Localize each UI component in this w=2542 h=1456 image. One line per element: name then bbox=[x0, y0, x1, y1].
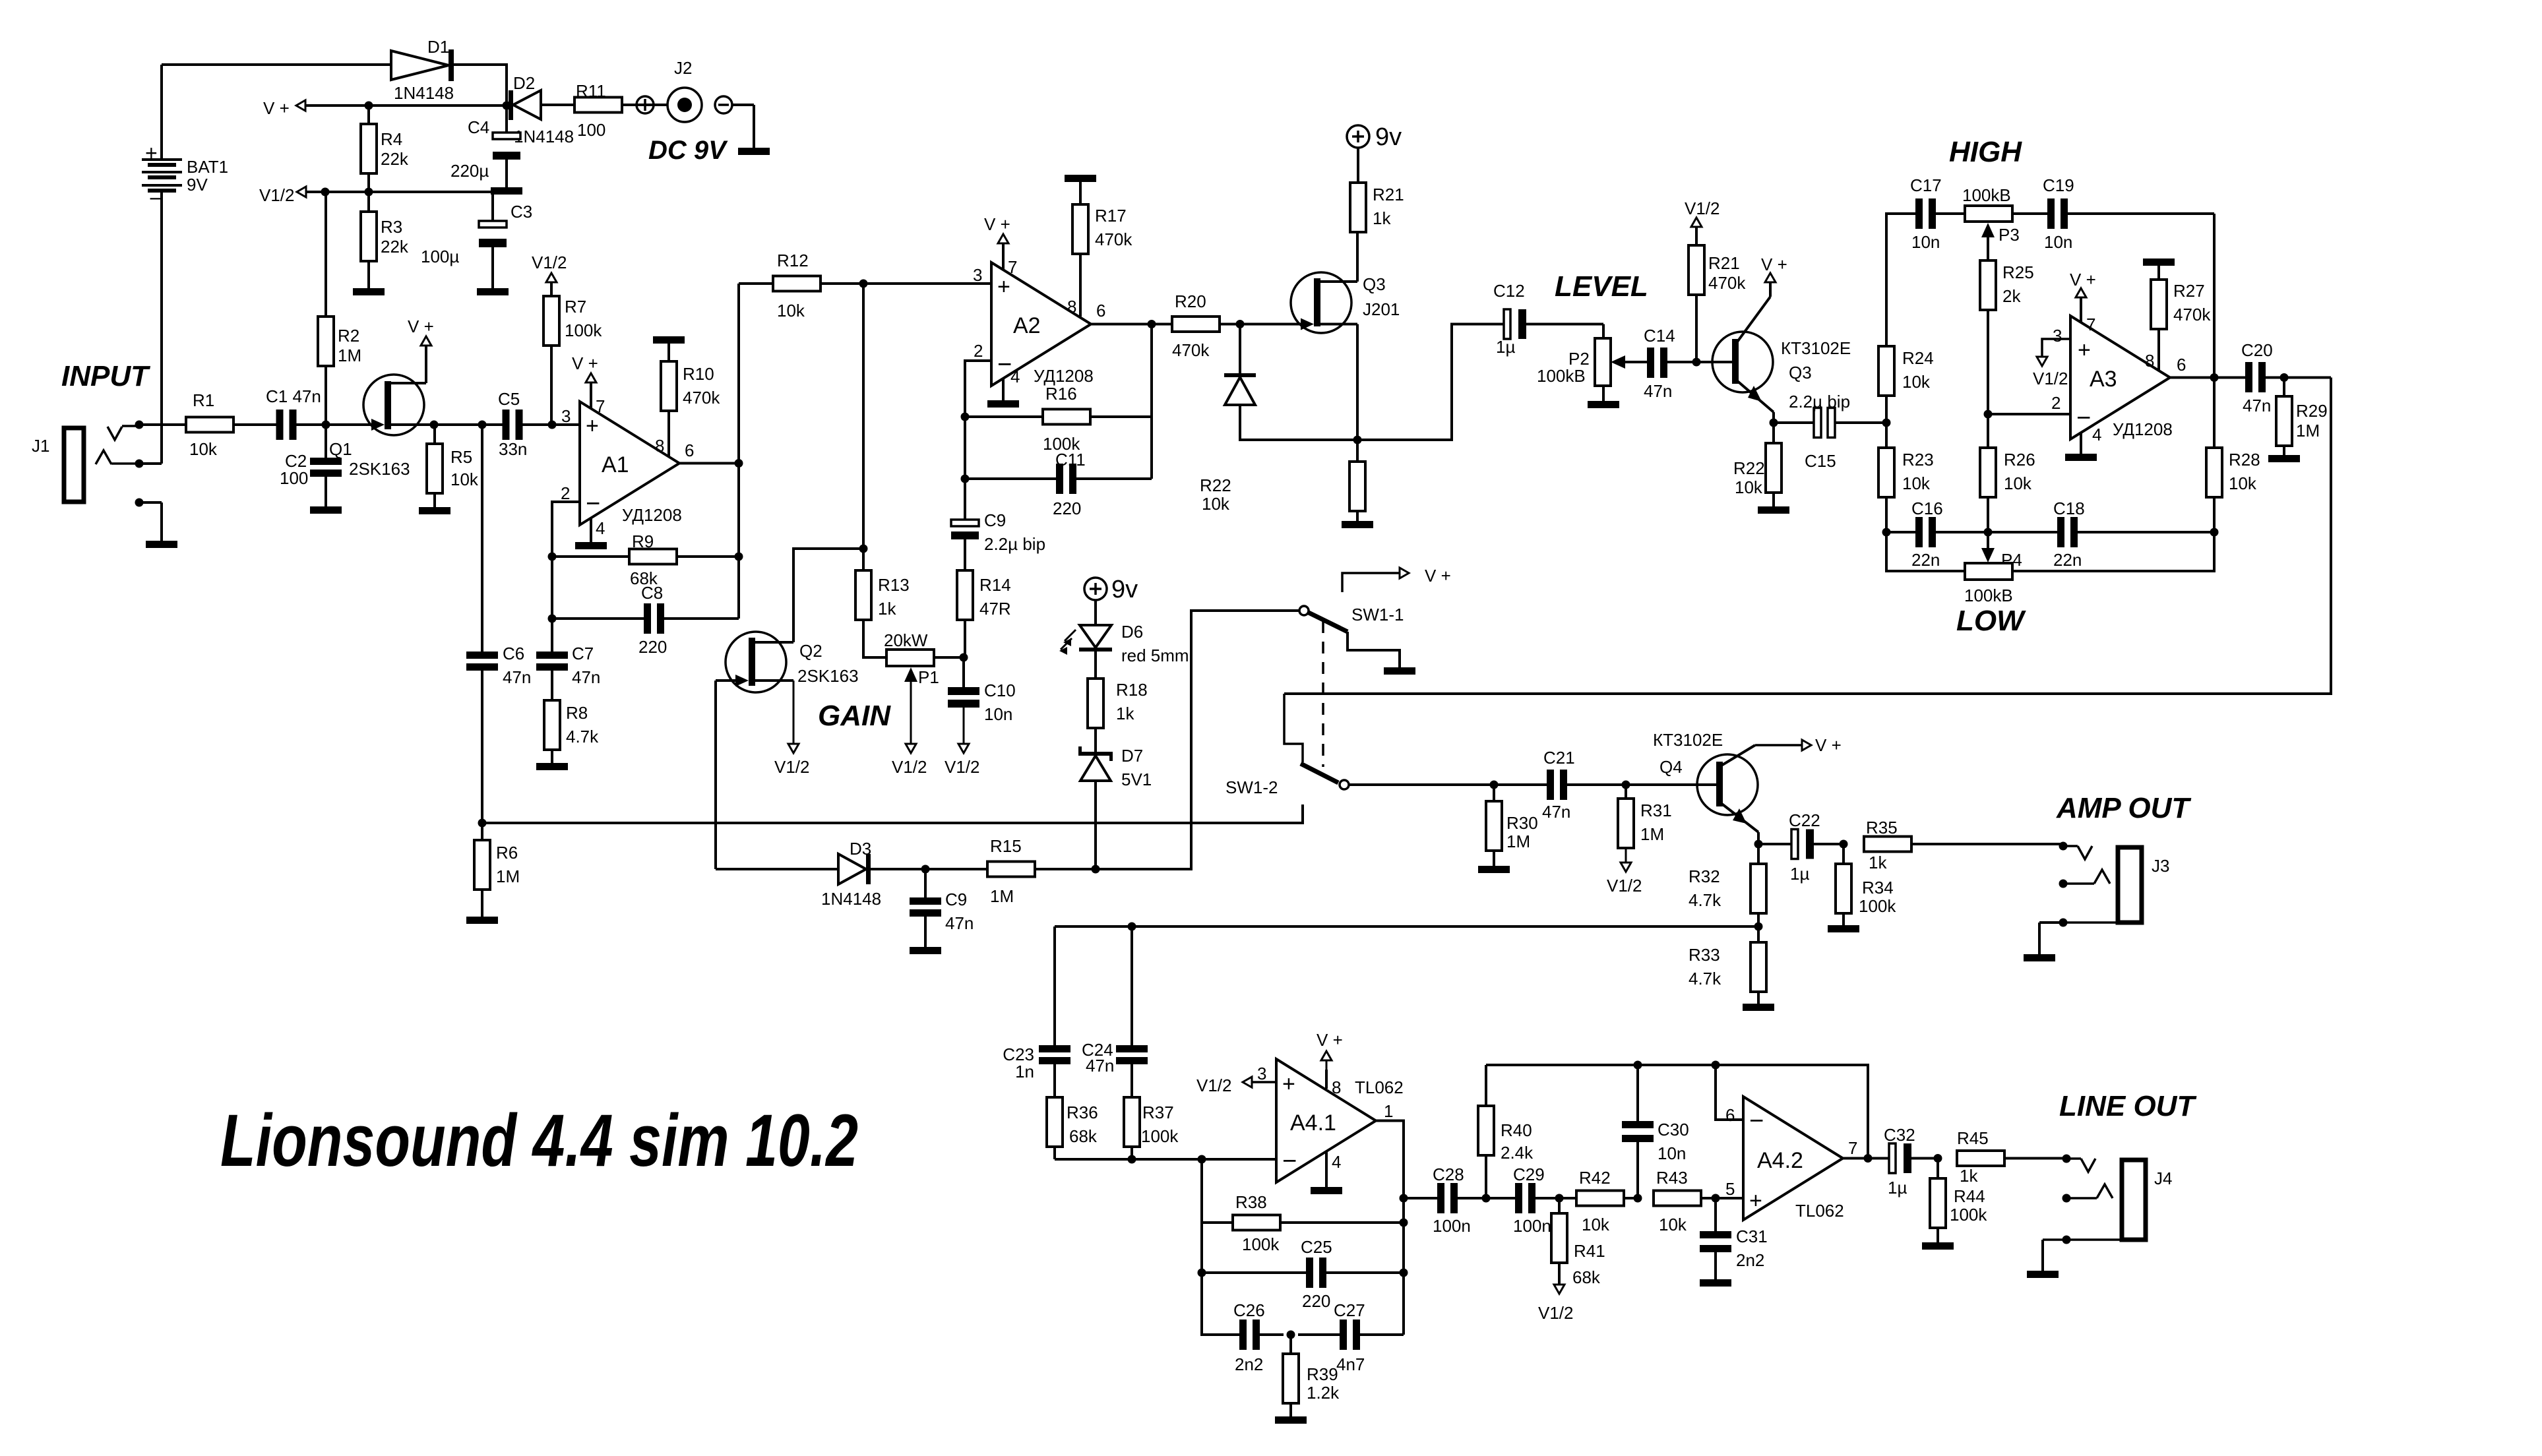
svg-text:220µ: 220µ bbox=[450, 161, 489, 181]
svg-text:68k: 68k bbox=[1069, 1126, 1098, 1146]
junction C20 R29 bbox=[2280, 373, 2289, 382]
svg-text:А3: А3 bbox=[2090, 367, 2117, 392]
resistor R40 bbox=[1478, 1065, 1494, 1198]
pin 5 A4.2 bbox=[1725, 1179, 1735, 1199]
junction R16 left bbox=[961, 413, 970, 421]
svg-text:1M: 1M bbox=[1506, 832, 1530, 851]
svg-text:R32: R32 bbox=[1689, 866, 1720, 886]
svg-text:1k: 1k bbox=[1373, 208, 1391, 228]
svg-text:C7: C7 bbox=[572, 644, 594, 663]
svg-text:R43: R43 bbox=[1656, 1168, 1688, 1188]
svg-text:47n: 47n bbox=[945, 913, 974, 933]
svg-text:100k: 100k bbox=[565, 320, 602, 340]
ground J3 bbox=[2024, 923, 2055, 961]
svg-text:2n2: 2n2 bbox=[1235, 1354, 1263, 1374]
label R40 bbox=[1501, 1120, 1534, 1163]
svg-text:А1: А1 bbox=[602, 452, 629, 477]
svg-text:9V: 9V bbox=[187, 175, 208, 195]
svg-text:V1/2: V1/2 bbox=[1538, 1303, 1574, 1323]
junction C24 top bbox=[1128, 923, 1136, 931]
svg-text:УД1208: УД1208 bbox=[1034, 366, 1094, 386]
pin 6 A1 bbox=[685, 440, 694, 460]
jack J1 bbox=[32, 426, 162, 502]
svg-text:R41: R41 bbox=[1574, 1241, 1605, 1261]
svg-text:+: + bbox=[1282, 1072, 1295, 1097]
transistor Q3 KT3102E bbox=[1696, 255, 1851, 423]
label R16 bbox=[1043, 384, 1080, 454]
svg-text:+: + bbox=[997, 274, 1010, 299]
svg-text:C30: C30 bbox=[1658, 1120, 1689, 1139]
svg-text:C17: C17 bbox=[1910, 175, 1942, 195]
svg-text:47n: 47n bbox=[503, 667, 531, 687]
svg-text:C26: C26 bbox=[1233, 1300, 1265, 1320]
junction C6 column bbox=[478, 421, 487, 429]
pin 6 A4.2 bbox=[1725, 1105, 1735, 1125]
label R26 bbox=[2004, 450, 2035, 493]
junction V1/2 R2 bbox=[321, 188, 330, 197]
label R28 bbox=[2229, 450, 2260, 493]
svg-text:4n7: 4n7 bbox=[1336, 1354, 1365, 1374]
svg-text:C3: C3 bbox=[511, 202, 532, 222]
capacitor C30 bbox=[1622, 1065, 1689, 1198]
svg-text:1n: 1n bbox=[1015, 1062, 1034, 1081]
pin 6 A2 bbox=[1096, 301, 1105, 320]
capacitor C5 bbox=[503, 409, 580, 440]
label R9 bbox=[630, 531, 658, 588]
transistor Q2 bbox=[716, 549, 863, 777]
svg-text:V1/2: V1/2 bbox=[1607, 876, 1642, 895]
svg-text:SW1-1: SW1-1 bbox=[1351, 605, 1404, 624]
junction R40 bbox=[1482, 1194, 1491, 1203]
wire long mid bbox=[482, 804, 1303, 823]
svg-text:УД1208: УД1208 bbox=[2113, 419, 2173, 439]
label R6 bbox=[496, 843, 520, 886]
svg-text:470k: 470k bbox=[1095, 229, 1132, 249]
junction V+ C4 bbox=[503, 102, 511, 110]
potentiometer P1 bbox=[863, 620, 964, 777]
op-amp A4.1 bbox=[1276, 1059, 1376, 1182]
svg-text:33n: 33n bbox=[499, 439, 527, 459]
resistor R37 bbox=[1124, 1097, 1140, 1159]
wire Q1 to C5 bbox=[434, 423, 503, 426]
resistor R10 bbox=[653, 336, 720, 456]
capacitor C21 bbox=[1494, 748, 1626, 822]
resistor R22b bbox=[1766, 423, 1782, 506]
svg-text:R24: R24 bbox=[1902, 348, 1934, 368]
svg-text:V1/2: V1/2 bbox=[259, 185, 295, 205]
junction J1 tip bbox=[135, 421, 144, 429]
svg-text:R4: R4 bbox=[381, 129, 402, 149]
label R39 bbox=[1307, 1364, 1340, 1403]
svg-text:Q2: Q2 bbox=[799, 641, 822, 661]
pin 7 A3 bbox=[2070, 270, 2096, 334]
junction fb C30 bbox=[1634, 1061, 1642, 1070]
svg-text:V +: V + bbox=[572, 353, 598, 373]
svg-text:−: − bbox=[586, 490, 600, 518]
svg-text:R25: R25 bbox=[2002, 262, 2034, 282]
svg-text:8: 8 bbox=[1067, 297, 1076, 317]
svg-text:J2: J2 bbox=[674, 58, 692, 78]
resistor R21 470k bbox=[1685, 198, 1746, 362]
svg-text:D7: D7 bbox=[1121, 746, 1143, 766]
resistor R6 bbox=[474, 823, 490, 917]
junction Q2 drain bbox=[859, 545, 868, 553]
jack J3 bbox=[2063, 846, 2169, 923]
junction C25 left bbox=[1198, 1269, 1206, 1277]
svg-text:100k: 100k bbox=[1141, 1126, 1179, 1146]
junction R37 bottom bbox=[1128, 1155, 1136, 1164]
junction fb pin6 bbox=[1712, 1061, 1720, 1070]
svg-text:C19: C19 bbox=[2043, 175, 2074, 195]
svg-text:3: 3 bbox=[2053, 326, 2062, 346]
label HIGH bbox=[1949, 136, 2022, 168]
label R24 bbox=[1902, 348, 1934, 392]
label DC 9V bbox=[648, 136, 728, 165]
svg-text:100k: 100k bbox=[1859, 896, 1896, 916]
wire A4.2 out bbox=[1843, 1157, 1889, 1160]
label D6 bbox=[1121, 622, 1189, 665]
svg-text:V +: V + bbox=[1815, 735, 1842, 755]
svg-text:C25: C25 bbox=[1301, 1237, 1332, 1257]
ground R29 bbox=[2268, 455, 2300, 462]
svg-text:R22: R22 bbox=[1200, 475, 1231, 495]
svg-text:4.7k: 4.7k bbox=[1689, 969, 1721, 988]
transistor Q1 bbox=[326, 317, 434, 479]
svg-text:100n: 100n bbox=[1513, 1216, 1551, 1236]
svg-text:−: − bbox=[1282, 1147, 1297, 1175]
svg-text:−: − bbox=[997, 351, 1012, 379]
svg-text:470k: 470k bbox=[1708, 273, 1746, 293]
svg-text:R37: R37 bbox=[1142, 1103, 1174, 1122]
wire A3 out bbox=[2170, 377, 2245, 379]
resistor R21 1k bbox=[1347, 123, 1404, 232]
svg-text:5V1: 5V1 bbox=[1121, 770, 1152, 789]
svg-text:SW1-2: SW1-2 bbox=[1225, 777, 1278, 797]
resistor R23 bbox=[1878, 423, 1894, 532]
svg-text:+: + bbox=[586, 413, 599, 439]
potentiometer P3 bbox=[1962, 185, 2047, 260]
junction R41 bbox=[1555, 1194, 1564, 1203]
label LOW bbox=[1956, 605, 2026, 637]
label R8 bbox=[566, 703, 599, 746]
svg-text:D6: D6 bbox=[1121, 622, 1143, 642]
resistor R25 bbox=[1980, 260, 1996, 414]
svg-text:1k: 1k bbox=[1116, 704, 1134, 723]
junction C8 left bbox=[548, 615, 557, 623]
svg-text:100: 100 bbox=[280, 468, 308, 488]
svg-text:470k: 470k bbox=[2173, 305, 2211, 324]
wire C24 col bbox=[1131, 926, 1133, 1045]
svg-text:C22: C22 bbox=[1789, 810, 1820, 830]
resistor R31 bbox=[1618, 785, 1634, 849]
svg-text:2k: 2k bbox=[2002, 286, 2021, 306]
junction pin5 bbox=[1712, 1194, 1720, 1203]
svg-text:А2: А2 bbox=[1013, 313, 1041, 338]
pin 7 A1 bbox=[572, 353, 605, 416]
svg-text:7: 7 bbox=[1008, 257, 1017, 277]
svg-text:V +: V + bbox=[1761, 255, 1787, 274]
svg-text:C5: C5 bbox=[498, 389, 520, 409]
junction J1 ring bbox=[135, 460, 144, 468]
svg-text:C31: C31 bbox=[1736, 1227, 1768, 1246]
label R5 bbox=[450, 447, 479, 489]
svg-text:2.2µ bip: 2.2µ bip bbox=[984, 534, 1045, 554]
junction R15 D7 bbox=[1092, 865, 1100, 874]
junction R6 bbox=[478, 819, 487, 828]
svg-text:КТ3102Е: КТ3102Е bbox=[1781, 338, 1851, 358]
label R45 bbox=[1957, 1128, 1989, 1186]
ground R6 bbox=[466, 917, 498, 924]
label R32 bbox=[1689, 866, 1721, 910]
label INPUT bbox=[61, 360, 150, 392]
pin 4 A2 bbox=[987, 367, 1020, 408]
svg-text:V +: V + bbox=[1317, 1030, 1343, 1050]
svg-text:R8: R8 bbox=[566, 703, 588, 723]
capacitor C12 bbox=[1504, 309, 1603, 339]
ground R39 bbox=[1275, 1416, 1307, 1424]
junction C1 Q1 gate bbox=[322, 421, 330, 429]
svg-text:4: 4 bbox=[596, 518, 605, 538]
junction J3 sleeve bbox=[2059, 919, 2068, 927]
svg-text:C27: C27 bbox=[1334, 1300, 1365, 1320]
svg-text:R44: R44 bbox=[1954, 1186, 1985, 1206]
svg-text:22n: 22n bbox=[2053, 550, 2082, 570]
wire battery top to D1 bbox=[162, 63, 391, 66]
svg-text:R13: R13 bbox=[878, 575, 910, 595]
power flag V1/2 rail bbox=[259, 185, 493, 205]
capacitor C14 bbox=[1644, 326, 1696, 401]
pin 3 A2 bbox=[973, 265, 982, 285]
pin 6 A3 bbox=[2177, 355, 2186, 375]
svg-text:3: 3 bbox=[1257, 1064, 1266, 1083]
label R35 bbox=[1866, 818, 1898, 872]
pin 7 A4.2 bbox=[1848, 1138, 1857, 1158]
diode D4 bbox=[1224, 324, 1256, 440]
svg-text:100µ: 100µ bbox=[421, 247, 459, 266]
svg-text:R36: R36 bbox=[1067, 1103, 1098, 1122]
ground J1 bbox=[146, 502, 177, 548]
svg-text:2SK163: 2SK163 bbox=[797, 666, 859, 686]
svg-text:10n: 10n bbox=[2044, 232, 2072, 252]
svg-text:J4: J4 bbox=[2154, 1168, 2172, 1188]
svg-text:9v: 9v bbox=[1375, 123, 1402, 151]
label C12 bbox=[1493, 281, 1525, 357]
capacitor C31 bbox=[1700, 1198, 1768, 1287]
svg-text:4.7k: 4.7k bbox=[1689, 890, 1721, 910]
junction Q1 source R5 bbox=[430, 421, 439, 429]
svg-text:КТ3102Е: КТ3102Е bbox=[1653, 730, 1723, 750]
svg-text:R7: R7 bbox=[565, 297, 586, 317]
wire R38 col bbox=[1200, 1159, 1203, 1273]
svg-text:R21: R21 bbox=[1708, 253, 1740, 273]
resistor R2 bbox=[318, 192, 334, 425]
svg-text:7: 7 bbox=[1848, 1138, 1857, 1158]
svg-text:D2: D2 bbox=[513, 73, 535, 93]
svg-text:R33: R33 bbox=[1689, 945, 1720, 965]
pin 4 A1 bbox=[575, 518, 607, 549]
svg-text:R45: R45 bbox=[1957, 1128, 1989, 1148]
svg-text:100kB: 100kB bbox=[1537, 366, 1586, 386]
switch gang dashed bbox=[1322, 621, 1324, 767]
wire R24 col up bbox=[1886, 214, 1915, 423]
svg-text:R34: R34 bbox=[1862, 878, 1894, 897]
pin 4 A3 bbox=[2065, 425, 2101, 461]
wire tone out bbox=[1284, 378, 2331, 694]
junction A2 out bbox=[1148, 320, 1156, 328]
power flag V+ rail bbox=[263, 98, 507, 118]
svg-text:LOW: LOW bbox=[1956, 605, 2026, 637]
svg-text:4.7k: 4.7k bbox=[566, 727, 599, 746]
svg-text:1k: 1k bbox=[878, 599, 896, 619]
svg-text:C1 47n: C1 47n bbox=[266, 386, 321, 406]
svg-text:C21: C21 bbox=[1543, 748, 1575, 768]
svg-text:C6: C6 bbox=[503, 644, 524, 663]
svg-text:47n: 47n bbox=[1086, 1056, 1114, 1076]
wire R33 row bbox=[1055, 925, 1758, 928]
capacitor C9 bip bbox=[951, 479, 1045, 570]
pin 2 A2 bbox=[974, 341, 983, 361]
power flag 9v LED bbox=[1084, 576, 1138, 625]
junction J4 sleeve bbox=[2062, 1236, 2071, 1244]
svg-text:P1: P1 bbox=[918, 667, 939, 687]
resistor R8 bbox=[544, 700, 560, 763]
svg-text:−: − bbox=[1749, 1107, 1764, 1135]
svg-text:Q4: Q4 bbox=[1659, 757, 1683, 777]
capacitor C29 bbox=[1486, 1165, 1559, 1236]
resistor R9 bbox=[552, 549, 739, 564]
ground R22b bbox=[1758, 506, 1789, 514]
svg-text:R3: R3 bbox=[381, 217, 402, 237]
jack J4 bbox=[2043, 1159, 2172, 1240]
svg-text:+: + bbox=[1749, 1188, 1762, 1213]
svg-text:2: 2 bbox=[974, 341, 983, 361]
label R2 bbox=[338, 326, 361, 365]
svg-text:22k: 22k bbox=[381, 237, 409, 257]
ground R30 bbox=[1478, 866, 1510, 873]
svg-text:1N4148: 1N4148 bbox=[821, 889, 881, 909]
svg-text:C11: C11 bbox=[1055, 450, 1086, 470]
svg-text:6: 6 bbox=[1725, 1105, 1735, 1125]
resistor R41 bbox=[1551, 1198, 1567, 1285]
resistor R26 bbox=[1980, 414, 1996, 532]
potentiometer P4 bbox=[1886, 532, 2214, 605]
wire A1 out bbox=[679, 462, 739, 465]
svg-text:BAT1: BAT1 bbox=[187, 157, 228, 177]
junction Q3b emitter bbox=[1770, 419, 1778, 427]
label Lionsound bbox=[220, 1099, 858, 1182]
svg-text:10k: 10k bbox=[1902, 473, 1931, 493]
svg-text:Lionsound 4.4 sim 10.2: Lionsound 4.4 sim 10.2 bbox=[220, 1099, 858, 1182]
label D7 bbox=[1121, 746, 1152, 789]
resistor R34 bbox=[1836, 844, 1851, 925]
svg-text:8: 8 bbox=[1332, 1077, 1341, 1097]
svg-text:R23: R23 bbox=[1902, 450, 1934, 470]
wire Q3 source row bbox=[1240, 324, 1504, 440]
svg-text:2: 2 bbox=[2051, 393, 2061, 413]
svg-text:Q1: Q1 bbox=[329, 439, 352, 459]
svg-text:4: 4 bbox=[2092, 425, 2101, 444]
pin 2 A1 bbox=[561, 483, 570, 503]
label R43 bbox=[1656, 1168, 1688, 1234]
resistor R22a bbox=[1349, 440, 1365, 521]
label R14 bbox=[979, 575, 1011, 619]
svg-text:2.2µ bip: 2.2µ bip bbox=[1789, 392, 1850, 411]
svg-text:C9: C9 bbox=[984, 510, 1006, 530]
svg-text:10k: 10k bbox=[2229, 473, 2257, 493]
svg-text:100kB: 100kB bbox=[1964, 586, 2013, 605]
svg-text:R11: R11 bbox=[576, 81, 606, 101]
svg-text:R2: R2 bbox=[338, 326, 359, 346]
svg-text:10n: 10n bbox=[984, 704, 1012, 724]
diode D1 bbox=[391, 37, 454, 103]
svg-text:R5: R5 bbox=[450, 447, 472, 467]
resistor R16 bbox=[965, 409, 1152, 425]
svg-text:9v: 9v bbox=[1111, 576, 1138, 603]
capacitor C26 bbox=[1233, 1300, 1284, 1374]
svg-text:10k: 10k bbox=[189, 439, 218, 459]
resistor R17 bbox=[1065, 175, 1132, 317]
svg-text:R9: R9 bbox=[632, 531, 654, 551]
resistor R29 bbox=[2276, 378, 2292, 456]
junction A1 pin3 bbox=[548, 421, 557, 429]
wire R12 column bbox=[737, 284, 740, 464]
capacitor C23 bbox=[1003, 1045, 1070, 1097]
svg-text:R30: R30 bbox=[1506, 813, 1538, 833]
svg-text:C8: C8 bbox=[641, 583, 663, 603]
svg-text:J1: J1 bbox=[32, 436, 49, 456]
svg-text:C14: C14 bbox=[1644, 326, 1675, 346]
resistor R14 bbox=[957, 570, 973, 657]
capacitor C24 bbox=[1082, 1040, 1148, 1097]
svg-text:LEVEL: LEVEL bbox=[1555, 270, 1648, 303]
svg-text:V1/2: V1/2 bbox=[945, 757, 980, 777]
label LEVEL bbox=[1555, 270, 1648, 303]
svg-text:1M: 1M bbox=[2296, 421, 2320, 440]
ground R22a bbox=[1342, 521, 1373, 528]
svg-text:6: 6 bbox=[2177, 355, 2186, 375]
svg-text:47n: 47n bbox=[1644, 381, 1672, 401]
junction J1 sleeve bbox=[135, 499, 144, 507]
svg-text:C18: C18 bbox=[2053, 499, 2085, 518]
svg-text:А4.1: А4.1 bbox=[1290, 1110, 1336, 1136]
svg-text:−: − bbox=[149, 187, 162, 210]
capacitor C19 bbox=[2043, 175, 2214, 252]
svg-text:10n: 10n bbox=[1658, 1143, 1686, 1163]
svg-text:6: 6 bbox=[685, 440, 694, 460]
svg-text:R16: R16 bbox=[1045, 384, 1077, 404]
svg-text:470k: 470k bbox=[683, 388, 720, 408]
label LINE OUT bbox=[2059, 1090, 2196, 1122]
label AMP OUT bbox=[2056, 792, 2191, 824]
svg-text:red 5mm: red 5mm bbox=[1121, 646, 1189, 665]
wire J1 ring to battery bbox=[139, 462, 162, 465]
wire Q2 gate down bbox=[714, 681, 717, 869]
svg-text:R20: R20 bbox=[1175, 291, 1206, 311]
battery BAT1 bbox=[142, 65, 228, 464]
op-amp A3 bbox=[2070, 316, 2173, 439]
svg-text:C20: C20 bbox=[2241, 340, 2273, 360]
svg-text:J201: J201 bbox=[1363, 299, 1400, 319]
DC jack J2 bbox=[636, 58, 770, 155]
label R22a bbox=[1200, 475, 1231, 514]
svg-text:Q3: Q3 bbox=[1789, 363, 1812, 382]
potentiometer P2 bbox=[1537, 324, 1647, 409]
transistor Q3 J201 bbox=[1240, 231, 1400, 440]
wire C23 col bbox=[1053, 926, 1056, 1045]
svg-text:2.4k: 2.4k bbox=[1501, 1143, 1534, 1163]
svg-text:D1: D1 bbox=[427, 37, 449, 57]
svg-text:10k: 10k bbox=[2004, 473, 2032, 493]
